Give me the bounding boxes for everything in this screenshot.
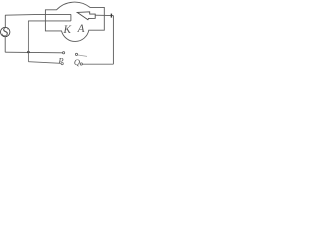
meter S circle <box>1 27 10 36</box>
cathode K bottom edge <box>28 20 71 22</box>
terminal circle upper-left <box>63 52 65 54</box>
stub from upper-right terminal <box>78 55 87 56</box>
cathode bottom lead vertical <box>27 21 29 62</box>
anode lead wire <box>95 14 113 16</box>
tube envelope <box>45 2 104 41</box>
wire bottom-left horizontal upper <box>5 51 62 54</box>
wire left vertical upper <box>4 15 6 27</box>
svg-text:P: P <box>57 55 63 65</box>
junction node dot <box>27 51 30 54</box>
wire bottom-left horizontal lower <box>28 62 60 64</box>
wire right vertical <box>112 16 114 65</box>
terminal circle lower-right <box>80 63 82 65</box>
anode A target block <box>77 12 95 20</box>
wire top-left horizontal (cathode top lead) <box>5 13 71 16</box>
svg-text:K: K <box>62 24 71 36</box>
anode terminal tick <box>110 14 112 18</box>
terminal circle upper-right <box>75 53 77 55</box>
wire bottom-right horizontal lower <box>83 63 114 65</box>
terminal circle lower-left <box>61 63 63 65</box>
cathode K right edge <box>70 14 72 21</box>
svg-text:Q: Q <box>74 57 80 67</box>
svg-text:A: A <box>77 23 85 35</box>
wire left vertical lower <box>4 37 6 53</box>
